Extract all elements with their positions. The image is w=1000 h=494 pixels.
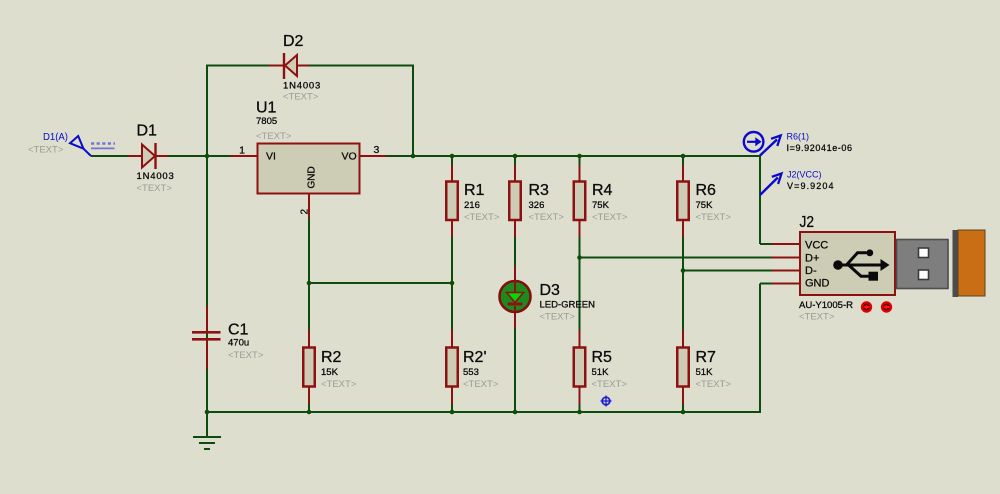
svg-text:<TEXT>: <TEXT> [799,312,835,323]
svg-text:470u: 470u [228,338,249,349]
svg-text:51K: 51K [696,367,714,378]
svg-text:U1: U1 [256,100,277,117]
svg-text:1N4003: 1N4003 [137,171,175,182]
svg-text:R2: R2 [321,349,342,366]
svg-text:<TEXT>: <TEXT> [463,379,499,390]
svg-text:75K: 75K [696,200,714,211]
svg-text:<TEXT>: <TEXT> [529,212,565,223]
svg-text:2: 2 [300,209,311,215]
svg-text:<TEXT>: <TEXT> [256,131,292,142]
svg-text:R7: R7 [696,349,717,366]
svg-text:J2(VCC): J2(VCC) [787,170,822,180]
svg-text:<TEXT>: <TEXT> [696,379,732,390]
svg-text:D1: D1 [137,123,158,140]
svg-text:51K: 51K [592,367,610,378]
svg-text:75K: 75K [592,200,610,211]
svg-text:553: 553 [463,367,479,378]
svg-text:1N4003: 1N4003 [283,81,321,92]
svg-text:D2: D2 [283,33,304,50]
svg-text:R5: R5 [592,349,613,366]
svg-text:<TEXT>: <TEXT> [28,145,64,156]
svg-text:R3: R3 [529,182,550,199]
svg-text:R2': R2' [463,349,487,366]
svg-text:<TEXT>: <TEXT> [464,212,500,223]
svg-text:15K: 15K [321,367,339,378]
svg-text:<TEXT>: <TEXT> [592,379,628,390]
svg-text:R6: R6 [696,182,717,199]
svg-text:<TEXT>: <TEXT> [540,312,576,323]
svg-text:1: 1 [239,145,245,157]
svg-text:7805: 7805 [256,116,277,127]
svg-text:<TEXT>: <TEXT> [696,212,732,223]
svg-text:VI: VI [266,151,276,163]
svg-text:<TEXT>: <TEXT> [228,350,264,361]
svg-text:D3: D3 [540,282,561,299]
svg-text:I=9.92041e-06: I=9.92041e-06 [787,143,853,153]
svg-text:<TEXT>: <TEXT> [283,92,319,103]
svg-text:V=9.9204: V=9.9204 [787,181,835,191]
svg-text:AU-Y1005-R: AU-Y1005-R [799,300,853,311]
svg-text:VCC: VCC [805,240,828,252]
svg-text:VO: VO [342,151,357,163]
svg-text:326: 326 [529,200,545,211]
svg-text:LED-GREEN: LED-GREEN [540,300,596,311]
svg-text:D+: D+ [805,253,819,265]
svg-text:R1: R1 [464,182,485,199]
svg-text:R4: R4 [592,182,613,199]
svg-text:D-: D- [805,265,817,277]
svg-text:D1(A): D1(A) [43,132,68,143]
svg-text:C1: C1 [228,322,249,339]
svg-text:216: 216 [464,200,480,211]
svg-text:3: 3 [374,144,380,156]
svg-text:GND: GND [307,166,318,188]
svg-text:R6(1): R6(1) [787,132,810,142]
svg-text:<TEXT>: <TEXT> [137,183,173,194]
svg-text:<TEXT>: <TEXT> [321,379,357,390]
svg-text:J2: J2 [800,214,815,231]
svg-text:GND: GND [805,278,830,290]
svg-text:<TEXT>: <TEXT> [592,212,628,223]
